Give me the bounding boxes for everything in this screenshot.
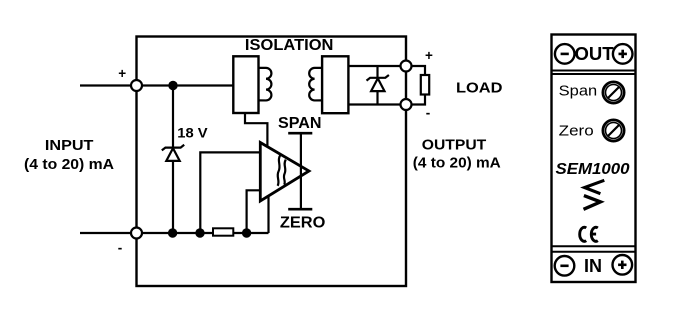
transformer T1 primary coil (259, 68, 272, 101)
junction dot rail 3 (242, 228, 251, 237)
zero pot bar (288, 208, 312, 211)
logo chevron bottom (584, 196, 601, 210)
svg-text:(4 to 20) mA: (4 to 20) mA (24, 156, 114, 173)
zener diode D1 18V (162, 145, 184, 161)
svg-text:-: - (118, 241, 123, 256)
svg-text:(4 to 20) mA: (4 to 20) mA (413, 155, 502, 171)
wire zener branch lower (172, 160, 174, 233)
svg-text:INPUT: INPUT (45, 137, 94, 154)
transformer T1 primary block (233, 56, 258, 113)
zero screw (603, 120, 624, 141)
bottom rail wire (137, 232, 269, 234)
output - terminal (401, 99, 412, 110)
transformer T1 secondary block (322, 56, 348, 113)
OUT + terminal circle (613, 44, 633, 64)
wire input + lead (80, 84, 136, 86)
wire transformer bottom to op-amp (245, 113, 267, 149)
junction dot rail 2 (195, 228, 204, 237)
svg-text:ZERO: ZERO (280, 214, 326, 231)
wire output zener bottom (376, 91, 378, 105)
svg-text:Span: Span (559, 82, 598, 99)
svg-text:OUT: OUT (574, 43, 614, 64)
module divider below OUT lower (551, 73, 636, 75)
op-amp lower input wire (247, 190, 261, 233)
wire input + to transformer (137, 84, 234, 86)
module divider above IN upper (551, 245, 636, 247)
OUT - terminal circle (555, 44, 575, 64)
wire output zener top (376, 66, 378, 78)
svg-text:SPAN: SPAN (278, 115, 322, 132)
input + terminal (131, 80, 142, 91)
module divider below OUT upper (551, 70, 636, 72)
output + terminal (401, 61, 412, 72)
zener diode D2 output clamp (367, 75, 389, 91)
wire zener branch upper (172, 86, 174, 149)
junction dot rail 1 (168, 228, 177, 237)
svg-text:Zero: Zero (559, 122, 594, 139)
svg-text:-: - (426, 106, 431, 121)
pot wiper line (300, 133, 302, 209)
wire secondary lower to - terminal (348, 103, 406, 105)
svg-text:OUTPUT: OUTPUT (422, 137, 487, 153)
junction dot input rail top (168, 81, 177, 90)
rail resistor R1 (213, 228, 233, 235)
svg-text:+: + (425, 48, 433, 63)
svg-text:IN: IN (584, 256, 602, 276)
logo chevron top (585, 180, 605, 193)
svg-text:SEM1000: SEM1000 (556, 161, 630, 178)
module divider above IN lower (551, 251, 636, 253)
svg-text:ISOLATION: ISOLATION (245, 37, 334, 54)
svg-text:+: + (118, 66, 126, 81)
svg-text:18 V: 18 V (177, 126, 207, 141)
span screw (603, 82, 624, 103)
IN - terminal circle (555, 256, 575, 276)
wire input - lead (80, 232, 136, 234)
wire rail to amp lower slope (267, 195, 269, 233)
op-amp chopper squiggle right (284, 160, 286, 185)
load resistor RL (421, 75, 429, 95)
IN + terminal circle (613, 255, 633, 275)
op-amp U1 (260, 143, 309, 202)
op-amp chopper squiggle left (278, 155, 281, 186)
transformer T1 secondary coil (309, 68, 322, 101)
span pot bar (288, 132, 312, 135)
op-amp upper input wire (200, 152, 260, 233)
CE mark (580, 227, 598, 241)
input - terminal (131, 228, 142, 239)
enclosure box (137, 37, 407, 287)
wire secondary upper to + terminal (348, 65, 406, 67)
load + wire (412, 66, 426, 76)
load - wire (412, 94, 426, 105)
module body SEM1000 (552, 35, 636, 283)
svg-text:LOAD: LOAD (456, 81, 503, 97)
